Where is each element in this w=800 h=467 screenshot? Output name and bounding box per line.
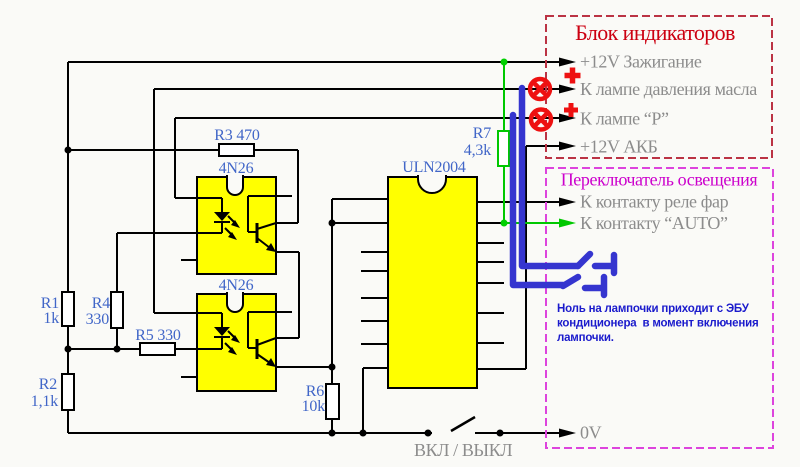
opto U2 LED triangle [214,327,230,336]
wire ULN pin to green node [477,222,504,224]
green arrow AUTO [559,219,576,228]
wire bottom rail right [475,432,560,434]
resistor R6 [326,384,339,419]
green node dot bottom [501,220,508,227]
opto U1 base path [248,196,292,232]
optocoupler U1 body 4N26 [197,175,276,274]
svg-text:Блок индикаторов: Блок индикаторов [575,20,735,45]
switch blade VKL/VYKL [451,417,475,431]
plus sign lamp2 [564,103,578,117]
svg-text:К лампе “Р”: К лампе “Р” [580,109,669,129]
svg-text:Переключатель освещения: Переключатель освещения [561,170,758,190]
opto U2 light arrow 1 [228,331,236,339]
arrow +12V AKB [559,142,576,151]
lamp HL1 [530,79,550,99]
wire left rail [67,62,69,433]
opto U1 internals: pin1 entry and LED [175,198,230,233]
ULN right stubs [477,243,504,343]
node dot left rail R3 [65,147,72,154]
blue switch 1 blade [578,254,590,266]
svg-text:кондиционера в момент включен: кондиционера в момент включения [557,318,758,330]
opto U1 LED triangle [214,212,230,221]
node dot R4 [114,346,121,353]
svg-text:К контакту “AUTO”: К контакту “AUTO” [580,213,728,233]
arrow relay contact [559,198,576,207]
svg-text:0V: 0V [580,423,602,443]
opto U1 collector [257,223,276,229]
optocoupler U2 body 4N26 [197,292,276,391]
wire bottom rail [68,432,432,434]
opto U1 transistor bar [256,223,259,243]
resistor R2 [62,374,74,410]
svg-text:+12V Зажигание: +12V Зажигание [580,52,702,72]
opto U2 collector [257,338,276,345]
wire +12V ignition line [68,61,560,63]
resistor R7 [498,131,509,166]
opto U1 light arrow 1 [228,216,236,224]
svg-text:R7: R7 [473,125,491,142]
arrow +12V ignition [559,58,576,67]
plus sign lamp1 [565,68,581,84]
green node dot top [501,59,508,66]
node dot switch left [425,430,432,437]
arrow P lamp [559,114,576,123]
dashed box light switch [546,168,773,448]
wire ULN input net x332 [276,199,388,433]
blue wire B from lamp2 [513,115,563,285]
svg-text:1k: 1k [43,310,59,327]
blue switch 1 contact [595,255,614,273]
opto U1 light arrow 2 [225,228,233,236]
svg-text:+12V АКБ: +12V АКБ [580,137,658,157]
node dot gnd [360,430,367,437]
dashed box indicators block [546,16,772,158]
node dot R6 bottom [329,430,336,437]
svg-text:ВКЛ / ВЫКЛ: ВКЛ / ВЫКЛ [414,440,512,460]
svg-text:4N26: 4N26 [219,277,254,294]
wire R3 net [68,150,298,223]
node dot ULN pin2 [329,220,336,227]
arrow oil lamp [559,85,576,94]
opto U2 unused pin stub [181,376,197,378]
svg-text:330: 330 [86,311,110,328]
svg-text:10k: 10k [302,398,326,415]
opto U2 transistor bar [256,339,259,359]
opto U2 internals: pin1 entry and LED [154,313,230,349]
svg-text:1,1k: 1,1k [31,393,58,410]
node dot R6 top [329,364,336,371]
resistor R3 [219,144,254,156]
svg-text:лампочки.: лампочки. [557,332,614,344]
opto U1 emitter [257,238,270,248]
opto U1 emitter wire to opto U2 collector [276,252,299,338]
opto U2 base path [248,312,292,348]
svg-text:R5 330: R5 330 [135,327,181,344]
lamp HL2 [531,110,551,130]
svg-text:R2: R2 [39,376,57,393]
svg-text:4,3k: 4,3k [464,142,491,159]
opto U2 emitter [257,354,270,363]
svg-text:R4: R4 [92,295,110,312]
wire ULN out to relay contact [477,201,560,203]
svg-text:4N26: 4N26 [219,160,254,177]
resistor R4 [111,292,123,328]
node dot switch right [497,430,504,437]
wire P lamp line [175,118,560,198]
opto U2 light arrow 2 [225,343,233,351]
resistor R5 [140,343,175,355]
wire ULN gnd pin [363,368,388,433]
ULN left stubs [361,252,388,344]
wire ULN common to +12V AKB [477,146,560,369]
svg-text:R3 470: R3 470 [214,127,260,144]
node dot rail [65,346,72,353]
blue switch 2 contact [585,277,604,295]
blue switch 2 blade [563,277,578,286]
wire R4 to opto1 cathode [117,233,222,349]
svg-text:Ноль на лампочки приходит с ЭБ: Ноль на лампочки приходит с ЭБУ [557,303,750,315]
arrow 0V [559,429,576,438]
svg-text:К лампе давления масла: К лампе давления масла [580,79,757,99]
svg-text:ULN2004: ULN2004 [402,159,466,176]
wire oil lamp line [154,89,560,313]
wire node line [68,348,222,350]
blue wire A from lamp1 [522,88,578,266]
green wire from ignition line [504,62,562,223]
svg-text:К контакту реле фар: К контакту реле фар [580,192,729,212]
IC U3 body ULN2004 [388,175,477,388]
opto U1 unused pin stub [181,259,197,261]
resistor R1 [62,292,74,326]
